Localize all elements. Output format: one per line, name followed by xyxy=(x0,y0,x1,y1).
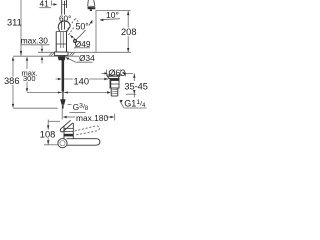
svg-text:300: 300 xyxy=(23,74,36,83)
svg-text:10°: 10° xyxy=(106,10,119,20)
svg-text:Ø34: Ø34 xyxy=(79,53,95,63)
svg-text:41: 41 xyxy=(40,0,50,8)
svg-text:50°: 50° xyxy=(76,21,89,31)
svg-text:max.30: max.30 xyxy=(21,35,49,45)
svg-text:311: 311 xyxy=(7,18,22,28)
svg-text:Ø63: Ø63 xyxy=(108,68,125,78)
svg-text:386: 386 xyxy=(4,76,20,86)
svg-text:35-45: 35-45 xyxy=(124,81,147,91)
svg-text:Ø49: Ø49 xyxy=(75,39,91,49)
svg-text:208: 208 xyxy=(121,27,137,37)
svg-text:max.180: max.180 xyxy=(76,113,108,123)
svg-text:108: 108 xyxy=(40,130,56,140)
svg-text:60°: 60° xyxy=(59,14,71,23)
svg-text:140: 140 xyxy=(74,76,90,86)
